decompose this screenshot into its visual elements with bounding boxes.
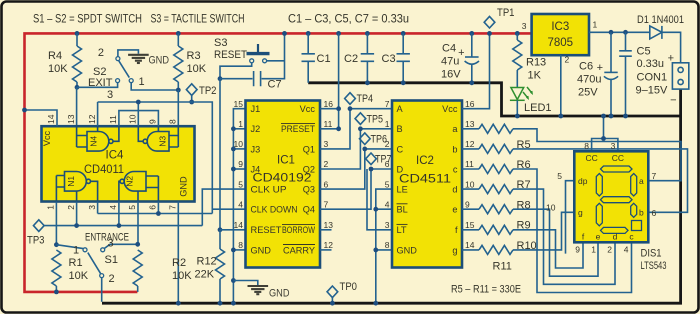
svg-text:5: 5 <box>385 179 390 189</box>
wire IC4 pin 5 to R2 <box>137 202 139 245</box>
svg-text:Vcc: Vcc <box>300 104 316 114</box>
junction J bus / IC1 GND <box>231 248 236 253</box>
svg-text:3: 3 <box>611 141 616 151</box>
test point TP6 <box>359 133 370 145</box>
wire IC4 pin 4 <box>118 202 120 226</box>
svg-text:12: 12 <box>87 114 97 124</box>
switch S2 pole contact (pin2) <box>116 57 120 61</box>
wire IC2 output stub to R10 <box>462 229 479 231</box>
svg-text:Q4: Q4 <box>303 205 315 215</box>
junction 0V rail / R12 <box>218 301 223 306</box>
svg-text:PRESET: PRESET <box>281 124 315 134</box>
wire IC2 LT to Q4 net <box>367 169 392 230</box>
test point TP4 <box>345 93 356 105</box>
junction TP6 stem <box>362 147 367 152</box>
wire IC1 BORROW stub <box>320 229 332 231</box>
junction 0V rail / C5 <box>623 114 628 119</box>
wire R12 bottom to 0V <box>219 279 221 303</box>
svg-text:5: 5 <box>238 179 243 189</box>
test point TP2 <box>186 84 197 96</box>
wire segment a to display <box>513 129 681 181</box>
capacitor C1 <box>302 33 331 82</box>
junction TP4 stem <box>348 106 353 111</box>
junction output node / C6 <box>609 30 614 35</box>
junction Vcc riser / PRESET <box>336 126 341 131</box>
svg-text:TP4: TP4 <box>357 93 374 105</box>
svg-text:2: 2 <box>98 47 104 59</box>
tactile switch S3 button <box>257 44 259 52</box>
resistor R13 <box>513 40 522 70</box>
svg-text:8: 8 <box>238 240 243 250</box>
svg-text:8: 8 <box>168 119 178 124</box>
test point TP3 <box>33 220 44 232</box>
capacitor C7 <box>254 71 261 86</box>
svg-text:C2: C2 <box>344 53 358 65</box>
svg-text:C: C <box>397 144 404 154</box>
svg-text:9: 9 <box>575 245 580 255</box>
node R3 / S2 pin1 / IC4 pin8 <box>176 88 181 93</box>
node S3 / C7 left / reset net <box>218 76 223 81</box>
wire IC1 Q1 to IC2 input <box>320 109 392 149</box>
svg-text:16: 16 <box>324 99 334 109</box>
junction 0V rail / C6 <box>609 114 614 119</box>
junction 0V rail / C4 <box>469 80 474 85</box>
svg-text:R11: R11 <box>493 261 512 273</box>
node R2 / S1 contact3 / IC4 pin5 <box>135 242 140 247</box>
svg-text:CD4011: CD4011 <box>84 164 124 176</box>
svg-text:b: b <box>639 208 644 218</box>
wire IC4 pin 3 <box>97 202 99 214</box>
svg-text:6: 6 <box>385 159 390 169</box>
wire segment d to display <box>513 189 615 284</box>
diode D1 <box>650 26 662 39</box>
junction red rail / IC1 Vcc riser <box>336 31 341 36</box>
svg-text:S1: S1 <box>105 254 118 266</box>
svg-text:−: − <box>670 95 676 107</box>
wire IC1 Vcc and PRESET to +V <box>338 33 340 128</box>
wire IC1 GND stub <box>233 249 245 251</box>
svg-text:1: 1 <box>385 119 390 129</box>
resistor R10 <box>479 225 513 234</box>
svg-text:GND: GND <box>397 245 418 255</box>
svg-text:LE: LE <box>397 185 408 195</box>
svg-text:6: 6 <box>324 179 329 189</box>
junction 0V rail / IC3 pin2 <box>558 114 563 119</box>
wire gate out net pin3-pin6 to clk-down <box>98 209 246 213</box>
junction 0V rail / display CC <box>601 114 606 119</box>
svg-text:R13: R13 <box>526 57 546 69</box>
wire IC2 output stub to R6 <box>462 148 479 150</box>
test point TP1 <box>484 16 495 28</box>
wire S1 contact1 to R1 <box>56 245 83 249</box>
wire IC2 output stub to R8 <box>462 188 479 190</box>
svg-text:Vcc: Vcc <box>442 104 458 114</box>
IC2 left pin function labels <box>397 104 418 255</box>
wire segment c to display <box>513 169 632 293</box>
wire +V red rail top/left/bottom <box>25 33 532 292</box>
svg-text:C7: C7 <box>268 79 282 91</box>
display segment c <box>631 203 637 217</box>
capacitor C4 electrolytic <box>458 33 479 82</box>
capacitor C3 <box>382 33 410 82</box>
svg-text:13: 13 <box>324 220 334 230</box>
wire TP2 stem <box>191 95 193 102</box>
svg-text:9: 9 <box>148 119 158 124</box>
svg-text:9: 9 <box>465 199 470 209</box>
switch S3 contact right <box>263 59 267 63</box>
IC U-IC3 7805 regulator body <box>532 14 589 55</box>
node R4 / S2 exit / IC4 pin13 <box>75 85 80 90</box>
svg-text:1: 1 <box>238 119 243 129</box>
svg-text:f: f <box>455 225 458 235</box>
svg-text:d: d <box>613 232 618 242</box>
svg-text:2: 2 <box>324 159 329 169</box>
wire segment g to display <box>513 212 574 250</box>
junction J bus / 0V rail <box>231 301 236 306</box>
svg-text:BL: BL <box>397 205 408 215</box>
svg-text:10: 10 <box>128 114 138 124</box>
svg-text:0.33u: 0.33u <box>637 58 665 70</box>
node R12 / IC1 RESET / S3 net <box>218 227 223 232</box>
svg-text:dp: dp <box>578 176 588 186</box>
svg-text:+: + <box>597 62 603 74</box>
svg-text:3: 3 <box>324 139 329 149</box>
switch S1 pole contact 2 <box>100 274 104 278</box>
svg-text:14: 14 <box>46 114 56 124</box>
display inner labels <box>578 153 644 242</box>
svg-text:Q3: Q3 <box>303 185 315 195</box>
svg-text:14: 14 <box>234 220 244 230</box>
svg-text:2: 2 <box>565 55 570 65</box>
NAND gate N2 <box>119 172 158 202</box>
svg-text:R2: R2 <box>172 257 186 269</box>
resistor R7 <box>479 165 513 174</box>
IC U-IC2 CD4511 body <box>392 101 462 268</box>
display segment f <box>596 174 602 197</box>
wire IC1 CARRY stub <box>320 249 332 251</box>
svg-text:R3: R3 <box>187 50 201 62</box>
svg-text:C4: C4 <box>442 43 456 55</box>
junction 0V rail / C2 <box>365 80 370 85</box>
node R1 / S1 contact1 / IC4 pin1 <box>54 242 59 247</box>
svg-text:10K: 10K <box>172 270 192 282</box>
svg-text:3: 3 <box>108 238 114 250</box>
IC U-IC4 CD4011 body <box>42 126 195 201</box>
svg-text:1K: 1K <box>528 70 542 82</box>
svg-text:S1 – S2 = SPDT SWITCH: S1 – S2 = SPDT SWITCH <box>33 14 142 26</box>
svg-text:16: 16 <box>465 99 475 109</box>
capacitor C5 <box>619 32 632 116</box>
svg-text:IC2: IC2 <box>416 155 434 167</box>
svg-text:a: a <box>452 124 458 134</box>
svg-text:EXIT: EXIT <box>88 77 113 89</box>
wire S1 pole down to 0V rail <box>101 278 103 302</box>
wire IC1 Q4 to IC2 input <box>320 169 392 209</box>
junction 0V rail / C3 <box>401 80 406 85</box>
svg-text:g: g <box>452 245 457 255</box>
svg-text:LTS543: LTS543 <box>641 260 667 272</box>
wire IC4 pin 6 <box>157 202 159 214</box>
resistor R11 <box>479 245 513 254</box>
IC2 left pin numbers <box>385 99 390 250</box>
wire IC3 pin2 to 0V <box>560 55 562 116</box>
svg-text:TP0: TP0 <box>340 281 358 293</box>
svg-text:CC: CC <box>585 153 597 163</box>
switch S1 lever <box>88 253 101 274</box>
wire R3 bottom <box>177 82 179 90</box>
svg-text:2: 2 <box>66 205 76 210</box>
wire IC2 Vcc to +V rail <box>462 33 490 108</box>
svg-text:5: 5 <box>127 205 137 210</box>
IC4 top pin numbers <box>46 114 177 124</box>
junction 0V rail / IC4 pin7 <box>176 301 181 306</box>
svg-text:CD40192: CD40192 <box>253 173 312 185</box>
wire 0V black rail bottom (S1 to CON1 minus) <box>102 89 681 303</box>
wire D1 cathode to CON1 plus <box>662 32 681 63</box>
junction J bus / J2 <box>231 126 236 131</box>
junction pin4 on clk-up net <box>117 223 122 228</box>
wire LED1 cathode to 0V <box>516 100 518 116</box>
junction TP7 stem <box>369 167 374 172</box>
NAND gate N4 <box>77 126 119 151</box>
wire IC4 pin 12 <box>97 102 99 126</box>
NAND gate N3 <box>138 126 178 151</box>
svg-text:RESET: RESET <box>214 49 247 61</box>
svg-text:Vcc: Vcc <box>42 130 52 146</box>
junction TP5 stem <box>358 126 363 131</box>
svg-text:11: 11 <box>108 115 118 124</box>
svg-text:14: 14 <box>465 240 475 250</box>
svg-text:10: 10 <box>234 139 244 149</box>
svg-text:470u: 470u <box>577 74 601 86</box>
wire IC4 pin 2 <box>76 202 78 226</box>
wire IC2 output stub to R5 <box>462 128 479 130</box>
junction TP0 / 0V rail <box>330 301 335 306</box>
svg-text:CLK DOWN: CLK DOWN <box>251 205 298 215</box>
svg-text:12: 12 <box>324 240 334 250</box>
svg-text:4: 4 <box>108 205 118 210</box>
junction 0V rail / LED1 <box>515 114 520 119</box>
svg-text:a: a <box>639 176 644 186</box>
svg-text:IC1: IC1 <box>277 155 295 167</box>
svg-text:1: 1 <box>46 205 56 210</box>
svg-text:CLK UP: CLK UP <box>251 185 287 195</box>
wire R13 to LED1 <box>516 70 518 87</box>
wire R4 bottom to node <box>76 82 78 87</box>
ground symbol near R12 <box>248 286 269 294</box>
capacitor C2 <box>344 33 374 82</box>
svg-text:3: 3 <box>522 21 527 31</box>
wire S3 left contact to C7 node <box>220 63 252 79</box>
svg-text:g: g <box>578 208 583 218</box>
wire R1 bottom to +V <box>55 286 57 292</box>
IC1 right pin function labels <box>281 104 315 255</box>
svg-text:C6: C6 <box>579 61 593 73</box>
junction red rail / R1 <box>54 290 59 295</box>
wire S2 contact1 down <box>131 83 178 90</box>
switch S2 lever <box>119 61 130 78</box>
svg-text:7: 7 <box>652 171 657 181</box>
junction red rail / C1 <box>306 31 311 36</box>
svg-text:10K: 10K <box>187 63 207 75</box>
wire 0V black rail upper (C1 to CON1) <box>308 83 680 116</box>
svg-text:A: A <box>397 104 404 114</box>
svg-text:+: + <box>668 53 674 65</box>
svg-text:3: 3 <box>87 205 97 210</box>
junction red rail / R3 <box>176 31 181 36</box>
display segment b <box>631 174 637 197</box>
svg-text:CON1: CON1 <box>637 72 668 84</box>
svg-text:LT: LT <box>397 225 407 235</box>
svg-text:J3: J3 <box>251 144 261 154</box>
junction CC bracket / riser <box>601 136 606 141</box>
IC U-IC1 CD40192 body <box>246 101 321 268</box>
wire reset net down to IC1 RESET / R12 <box>219 79 221 230</box>
svg-text:6: 6 <box>148 205 158 210</box>
svg-text:10K: 10K <box>69 270 89 282</box>
wire segment e to display <box>513 209 598 276</box>
svg-text:CARRY: CARRY <box>283 245 315 255</box>
svg-text:e: e <box>596 232 601 242</box>
wire IC2 output stub to R7 <box>462 168 479 170</box>
svg-text:7: 7 <box>168 205 178 210</box>
svg-text:9–15V: 9–15V <box>636 85 668 97</box>
junction red rail / C4 <box>469 31 474 36</box>
svg-text:1: 1 <box>591 245 596 255</box>
svg-text:C1: C1 <box>317 53 331 65</box>
svg-text:IC3: IC3 <box>551 21 569 33</box>
wire IC4 pin 10 up <box>137 102 139 126</box>
IC2 right pin function labels <box>442 104 458 255</box>
svg-text:R12: R12 <box>197 256 217 268</box>
svg-text:12: 12 <box>465 139 475 149</box>
display segment d <box>601 227 629 233</box>
svg-text:3: 3 <box>385 220 390 230</box>
resistor R6 <box>479 144 513 153</box>
wire IC2 output stub to R9 <box>462 208 479 210</box>
switch S1 throw contact 3 <box>101 248 105 252</box>
wire IC2 GND stub <box>376 249 392 251</box>
svg-text:47u: 47u <box>441 56 459 68</box>
junction J bus / J3 <box>231 147 236 152</box>
svg-text:TP3: TP3 <box>27 235 45 247</box>
wire S1 contact3 to R2 <box>104 244 137 248</box>
connector CON1 <box>672 63 688 89</box>
IC1 right pin numbers <box>324 99 334 250</box>
wire IC1 J3 stub <box>233 148 245 150</box>
wire IC4 pin 11 to pin 9 bracket <box>119 111 158 127</box>
svg-text:1: 1 <box>139 76 145 88</box>
junction J bus / gnd symbol branch <box>231 278 236 283</box>
wire IC1 Q2 to IC2 input <box>320 129 392 169</box>
svg-text:5: 5 <box>557 171 562 181</box>
resistor R4 <box>73 46 82 82</box>
junction LE bus / BL <box>373 207 378 212</box>
wire TP3 to clk-up net <box>44 225 202 227</box>
svg-text:CC: CC <box>612 153 624 163</box>
wire display CC pins to 0V <box>592 116 618 151</box>
junction LE bus / 0V rail <box>373 301 378 306</box>
wire IC1 PRESET stub <box>320 128 339 130</box>
svg-text:S3: S3 <box>214 37 227 49</box>
junction red rail / IC4 Vcc <box>22 108 27 113</box>
junction pin2 on clk-up net <box>74 223 79 228</box>
resistor R9 <box>479 205 513 214</box>
svg-text:8: 8 <box>584 141 589 151</box>
svg-text:CD4511: CD4511 <box>399 174 451 186</box>
svg-text:8: 8 <box>385 240 390 250</box>
svg-text:7805: 7805 <box>548 37 574 49</box>
svg-text:GND: GND <box>149 55 170 67</box>
7-segment display DIS1 LTS543 body <box>574 151 648 242</box>
svg-text:C3: C3 <box>382 53 396 65</box>
svg-text:TP2: TP2 <box>199 85 217 97</box>
svg-text:d: d <box>452 185 457 195</box>
switch S3 contact left <box>250 59 254 63</box>
wire IC4 pin 13 <box>76 87 78 147</box>
test point TP5 <box>355 113 366 125</box>
switch S2 throw contact 1 <box>129 79 133 83</box>
svg-text:1: 1 <box>73 245 79 257</box>
junction pin10 on feedback wire <box>136 100 141 105</box>
svg-text:D1 1N4001: D1 1N4001 <box>637 14 684 26</box>
wire gate feedback net (pins 12,10 to TP2, clk-down riser) <box>98 102 213 214</box>
junction red rail / C3 <box>401 31 406 36</box>
wire IC1 J1-J4 tie bus to 0V <box>233 109 245 304</box>
resistor R12 <box>216 249 225 279</box>
junction LE bus / GND <box>373 248 378 253</box>
wire IC4 pin 8 <box>177 90 179 147</box>
svg-text:R5 – R11 = 330E: R5 – R11 = 330E <box>451 284 521 296</box>
wire IC1 RESET stub <box>220 229 246 231</box>
svg-text:N3: N3 <box>158 136 168 147</box>
svg-text:GND: GND <box>179 176 189 197</box>
svg-text:6: 6 <box>652 208 657 218</box>
IC4 bottom pin numbers <box>46 205 178 210</box>
svg-text:2: 2 <box>385 139 390 149</box>
wire C7 left plate <box>220 78 253 80</box>
wire R3 top <box>177 33 179 46</box>
resistor R8 <box>479 185 513 194</box>
svg-text:4: 4 <box>238 199 243 209</box>
wire IC2 BL stub <box>376 208 392 210</box>
resistor R1 <box>52 250 61 286</box>
wire R12 top <box>219 230 221 249</box>
wire R13 top <box>516 33 518 40</box>
resistor R5 <box>479 124 513 133</box>
junction Vcc riser / pin16 <box>336 106 341 111</box>
svg-text:c: c <box>453 164 458 174</box>
display pin numbers <box>546 141 656 255</box>
wire R4 top <box>76 33 78 46</box>
test point TP0 <box>327 286 338 298</box>
svg-text:C5: C5 <box>637 46 651 58</box>
svg-text:J2: J2 <box>251 124 261 134</box>
svg-text:S3 = TACTILE SWITCH: S3 = TACTILE SWITCH <box>151 14 245 26</box>
svg-text:b: b <box>452 144 457 154</box>
svg-text:22K: 22K <box>195 269 215 281</box>
svg-text:N2: N2 <box>125 176 135 187</box>
svg-text:15: 15 <box>234 99 244 109</box>
svg-text:LED1: LED1 <box>524 102 552 114</box>
junction red rail / R13 <box>515 31 520 36</box>
IC1 left pin function labels <box>251 104 298 255</box>
svg-text:R1: R1 <box>69 257 83 269</box>
svg-text:B: B <box>397 124 403 134</box>
IC2 right pin numbers <box>465 99 475 250</box>
svg-text:15: 15 <box>465 220 475 230</box>
svg-text:11: 11 <box>324 119 333 129</box>
